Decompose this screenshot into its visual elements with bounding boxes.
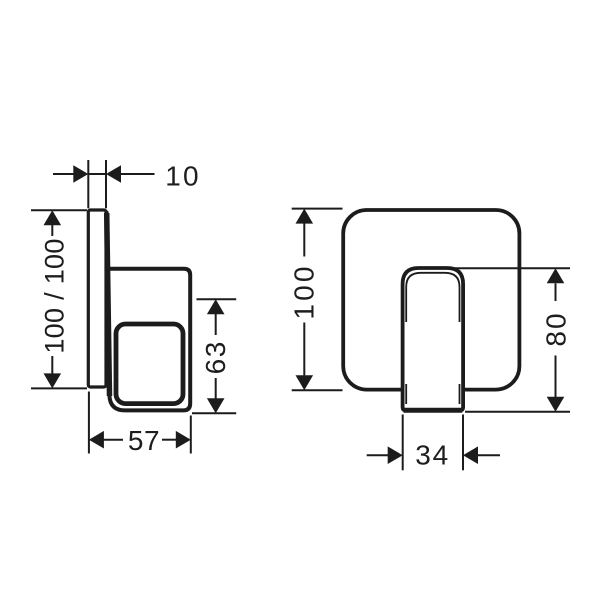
- hook inner contour line: [406, 273, 459, 322]
- arrow pointing left at x=88.9: [89, 431, 104, 449]
- arrow down at y=413.3: [207, 398, 225, 413]
- hook inner cutout (side view): [116, 324, 183, 404]
- svg-text:100 / 100: 100 / 100: [39, 238, 69, 353]
- extension line bottom: [465, 411, 570, 413]
- arrow pointing right at x=402.7: [388, 446, 403, 464]
- svg-text:10: 10: [165, 161, 201, 192]
- arrow up at y=299.3: [207, 299, 225, 314]
- arrow pointing right at x=190.8: [176, 431, 191, 449]
- extension line bottom: [31, 387, 87, 389]
- hook inner contour bottom-right tick: [459, 384, 461, 404]
- dim leader right: [121, 173, 155, 175]
- svg-text:100: 100: [289, 263, 320, 319]
- extension line left: [402, 415, 404, 471]
- dim line lower segment: [303, 323, 305, 376]
- arrow down at y=411.7: [547, 397, 565, 412]
- arrow down at y=388.4: [44, 373, 62, 388]
- extension line top: [447, 267, 570, 269]
- dim line upper segment: [51, 225, 53, 236]
- svg-text:34: 34: [415, 439, 450, 470]
- dim line upper segment: [555, 283, 557, 301]
- dimension 63 (hook height, side): [192, 299, 236, 413]
- arrow pointing left at x=106: [106, 165, 121, 183]
- dim line upper segment: [215, 314, 217, 335]
- svg-text:80: 80: [540, 311, 571, 346]
- hook inner contour bottom-left tick: [405, 384, 407, 404]
- arrow pointing left at x=463: [463, 446, 478, 464]
- wall plate (front view, rounded square): [343, 210, 519, 390]
- dimension 80 (hook height, front): [447, 268, 570, 412]
- extension line top: [292, 208, 343, 210]
- extension line right: [462, 415, 464, 471]
- extension line left: [88, 392, 90, 454]
- dim leader left: [367, 454, 388, 456]
- arrow up at y=268.2: [547, 268, 565, 283]
- extension line left: [87, 160, 89, 208]
- extension line right: [105, 160, 107, 208]
- dim line lower segment: [51, 356, 53, 374]
- svg-text:57: 57: [128, 425, 160, 456]
- dimension 57 (hook depth, side): [89, 392, 191, 454]
- extension line top: [31, 209, 87, 211]
- hook back edge thick band: [107, 213, 110, 396]
- arrow pointing right at x=88.3: [73, 165, 88, 183]
- dim leader right: [478, 454, 501, 456]
- dim line lower segment: [215, 378, 217, 399]
- dim line lower segment: [555, 356, 557, 398]
- extension line bottom: [192, 412, 236, 414]
- dim line between: [88, 173, 106, 175]
- dimension 10 (plate thickness): [53, 160, 155, 208]
- extension line top: [197, 298, 237, 300]
- arrow up at y=210.3: [44, 210, 62, 225]
- arrow up at y=208.6: [296, 209, 314, 224]
- extension line bottom: [292, 389, 343, 391]
- dim line left segment: [104, 439, 124, 441]
- hook body outline (side view): [107, 213, 191, 411]
- dim leader left: [53, 173, 74, 175]
- arrow down at y=390.2: [296, 375, 314, 390]
- hook bottom edge (thicker): [404, 408, 463, 413]
- svg-text:63: 63: [200, 340, 231, 374]
- dimension 100 (front plate height): [292, 209, 343, 391]
- dimension 100 / 100 (plate height): [31, 210, 87, 388]
- dim line right segment: [162, 439, 177, 441]
- hook (front view) outer outline: [403, 268, 464, 410]
- dim line upper segment: [303, 223, 305, 256]
- dimension 34 (hook width, front): [367, 415, 500, 471]
- extension line right: [190, 416, 192, 454]
- wall plate (side view): [88, 210, 106, 387]
